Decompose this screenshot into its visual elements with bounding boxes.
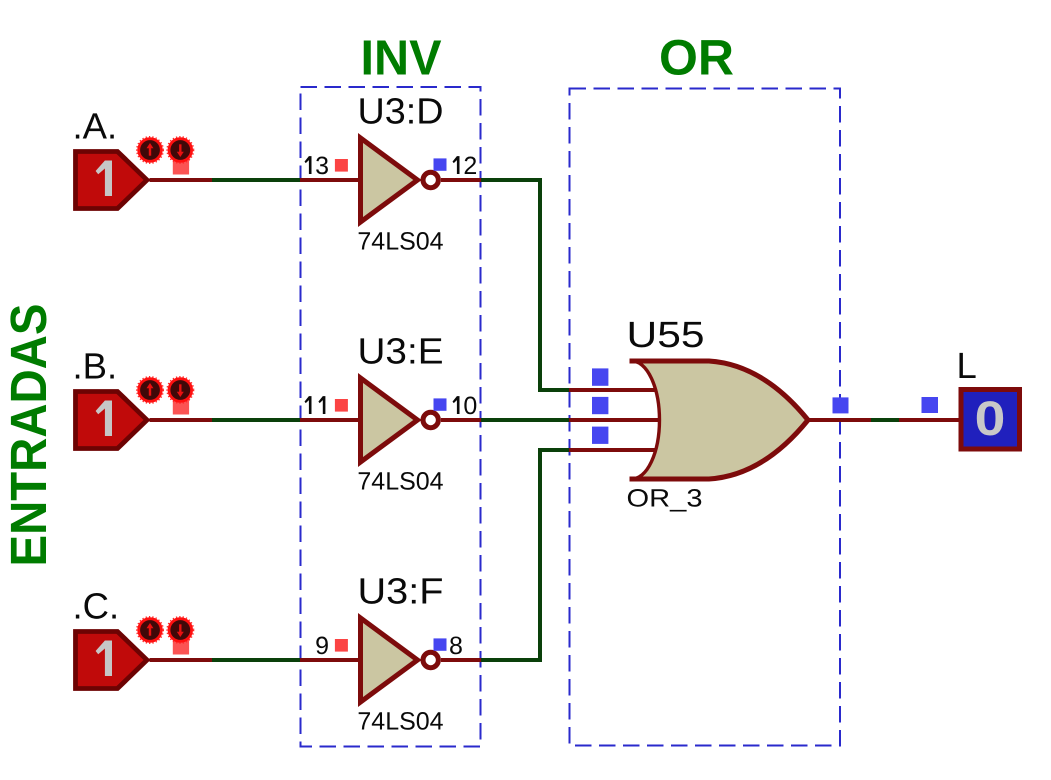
toggle up button C — [137, 617, 164, 644]
svg-text:L: L — [957, 345, 977, 386]
toggle up button A — [137, 137, 164, 164]
or-gate output pin marker — [833, 397, 849, 413]
wire OR output to L — [871, 418, 899, 422]
svg-text:74LS04: 74LS04 — [357, 708, 443, 736]
svg-text:8: 8 — [449, 632, 463, 660]
toggle up button B — [137, 377, 164, 404]
pin 12 stub — [441, 178, 481, 182]
logic input state B (value 1) — [76, 392, 148, 449]
svg-text:0: 0 — [975, 392, 1006, 446]
logic probe L pin marker — [922, 397, 939, 413]
logic input state A (value 1) — [76, 152, 148, 209]
dashed box OR — [570, 89, 841, 746]
svg-text:OR_3: OR_3 — [627, 485, 703, 513]
svg-text:.A.: .A. — [73, 106, 118, 147]
inverter U3:E body — [361, 378, 439, 462]
svg-text:2: 2 — [463, 152, 477, 180]
svg-text:74LS04: 74LS04 — [357, 468, 443, 496]
wire C: input to inverter — [150, 658, 361, 662]
inverter U3:D body — [361, 138, 439, 222]
svg-text:U3:F: U3:F — [358, 571, 444, 612]
or-gate input pin markers — [592, 368, 608, 444]
svg-text:U3:E: U3:E — [358, 331, 444, 372]
svg-text:9: 9 — [315, 632, 329, 660]
svg-text:INV: INV — [361, 31, 442, 86]
pin 11 marker — [335, 399, 348, 412]
pin 10 marker — [434, 398, 447, 410]
svg-text:ENTRADAS: ENTRADAS — [0, 304, 57, 567]
svg-text:OR: OR — [659, 30, 734, 86]
dashed box INV — [301, 87, 481, 747]
svg-text:3: 3 — [315, 152, 329, 180]
or-gate output pin stub — [808, 418, 871, 422]
inverter U3:F body — [361, 618, 439, 702]
svg-text:.B.: .B. — [73, 346, 118, 387]
pin number 11 — [305, 396, 312, 414]
wire U3:E out to OR input 2 — [481, 418, 569, 422]
pin number 12 — [453, 156, 460, 174]
wire A: input to inverter — [150, 178, 361, 182]
pin number 10 — [453, 396, 460, 414]
svg-text:U3:D: U3:D — [358, 91, 444, 132]
pin 12 marker — [434, 158, 447, 170]
or-gate input pin 2 stub — [569, 418, 664, 422]
logic probe L pin stub — [899, 418, 959, 422]
svg-text:.C.: .C. — [73, 586, 120, 627]
toggle down button A — [167, 137, 194, 175]
pin 13 marker — [335, 159, 348, 172]
wire U3:F out to OR input 3 — [481, 448, 569, 662]
toggle down button B — [167, 377, 194, 415]
or-gate input pin 1 stub — [569, 388, 660, 392]
svg-text:0: 0 — [463, 392, 477, 420]
or-gate input pin 3 stub — [569, 448, 660, 452]
pin 8 stub — [441, 658, 481, 662]
toggle down button C — [167, 617, 194, 655]
logic input state C (value 1) — [76, 632, 148, 689]
pin 10 stub — [441, 418, 481, 422]
svg-text:U55: U55 — [627, 314, 705, 355]
pin 9 marker — [335, 639, 348, 652]
or-gate U55 body — [632, 361, 808, 479]
pin number 13 — [305, 156, 312, 174]
pin 8 marker — [434, 638, 447, 650]
wire B: input to inverter — [150, 418, 361, 422]
svg-text:74LS04: 74LS04 — [357, 228, 443, 256]
wire U3:D out to OR input 1 — [481, 178, 569, 392]
logic probe L (value 0) — [961, 390, 1020, 450]
